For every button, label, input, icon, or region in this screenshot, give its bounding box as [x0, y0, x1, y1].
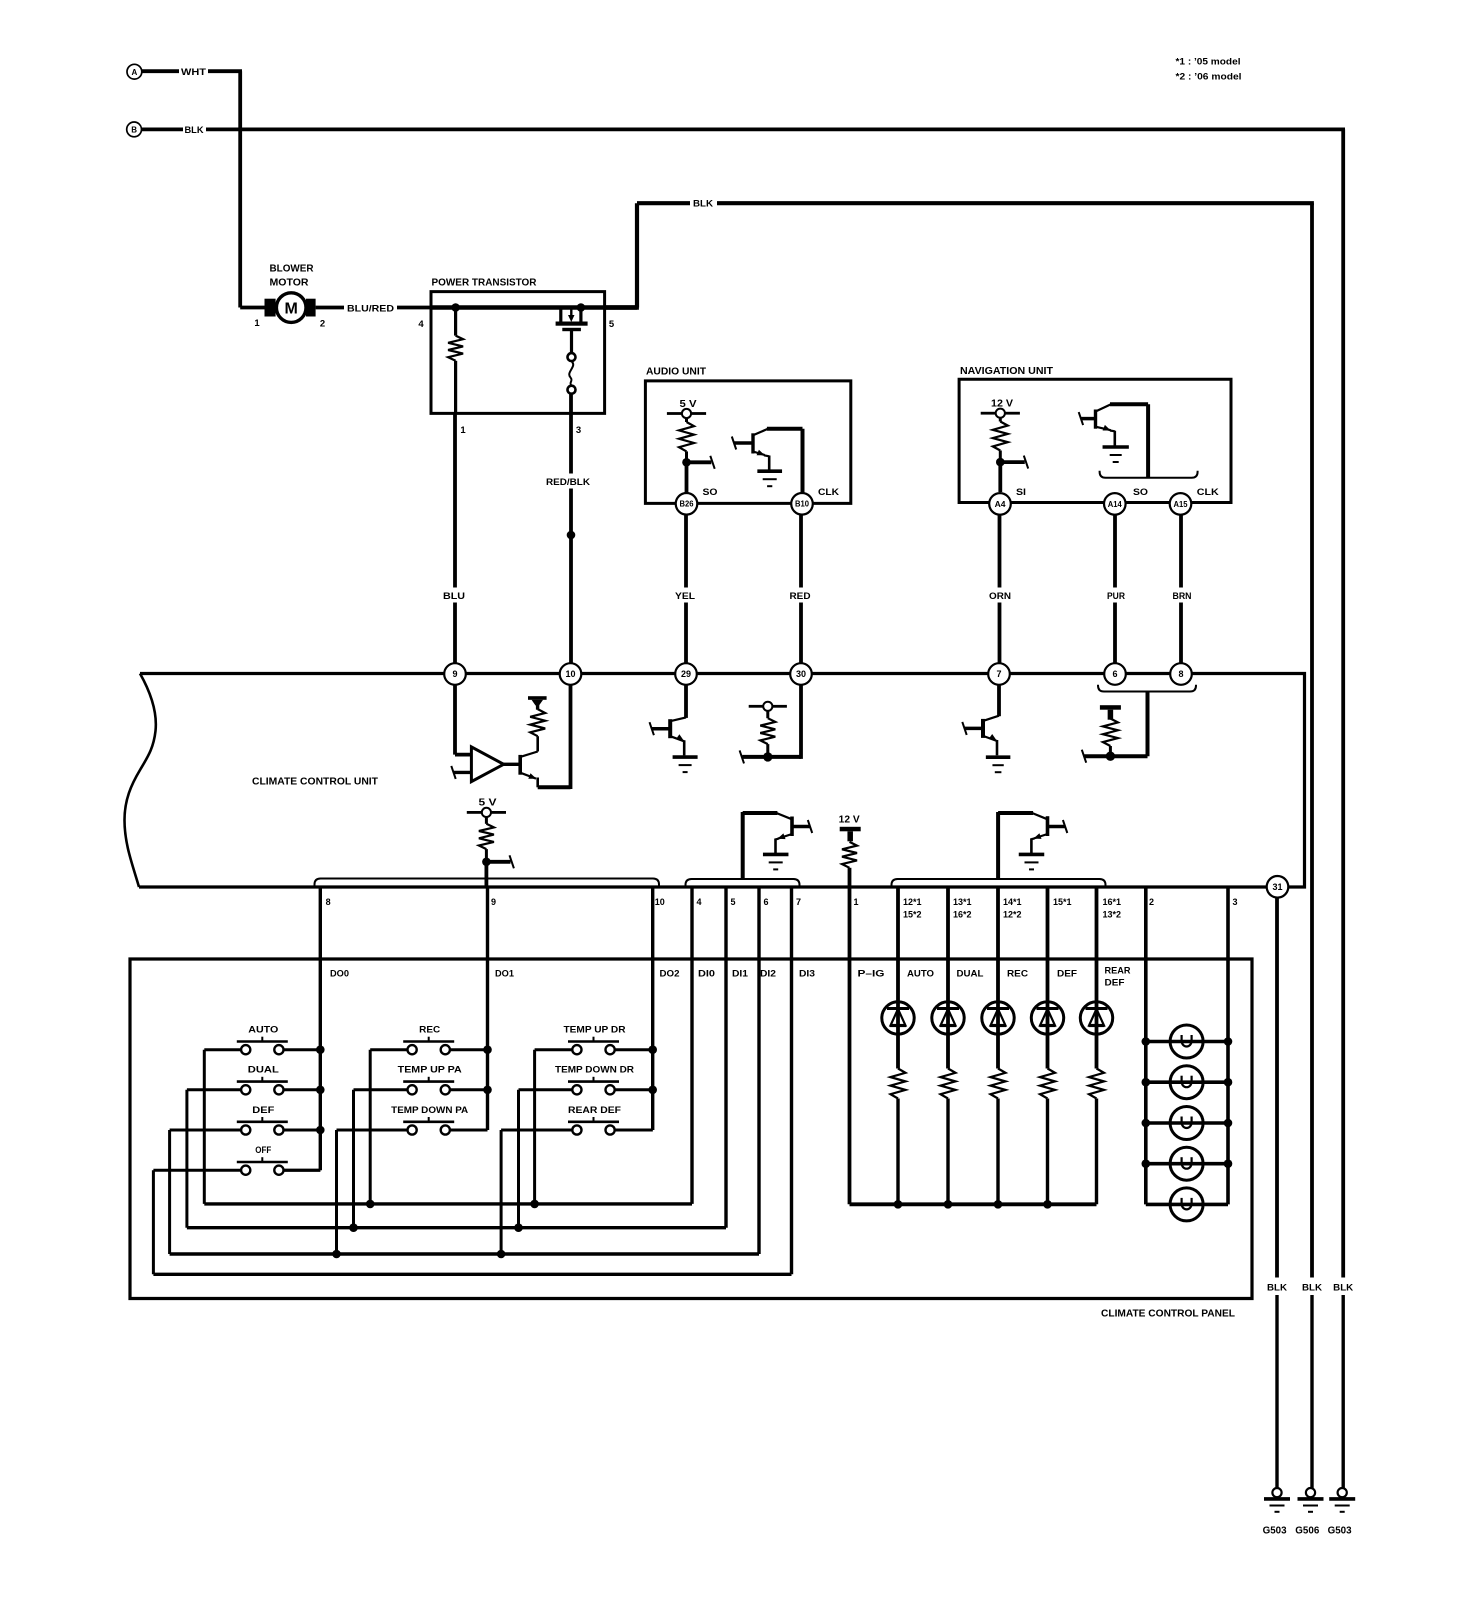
ground G503	[1264, 1488, 1290, 1512]
panel label DI3	[799, 969, 815, 980]
label RED (audio)	[786, 588, 815, 603]
svg-text:*2 : ’06 model: *2 : ’06 model	[1176, 72, 1242, 83]
svg-text:DO1: DO1	[495, 969, 515, 980]
svg-text:BLU/RED: BLU/RED	[347, 303, 394, 314]
svg-text:G503: G503	[1263, 1526, 1287, 1537]
svg-text:A4: A4	[995, 499, 1006, 509]
pull-up resistor (pins 6/8)	[1100, 705, 1121, 761]
wire to A4	[998, 462, 1002, 492]
label SO (nav)	[1133, 487, 1148, 498]
svg-text:10: 10	[655, 897, 665, 907]
wire pin 31 to ground	[1275, 898, 1279, 1286]
transistor T2 (LED group)	[998, 812, 1067, 880]
svg-text:TEMP DOWN DR: TEMP DOWN DR	[555, 1065, 634, 1076]
svg-text:CLK: CLK	[1197, 487, 1219, 498]
wire drain bus inside power transistor	[431, 305, 637, 310]
label BRN	[1167, 588, 1196, 603]
label ORN	[985, 588, 1015, 603]
ground (navigation unit)	[1103, 447, 1129, 462]
svg-text:ORN: ORN	[989, 591, 1011, 602]
terminal B10	[791, 493, 813, 515]
pin 30 circle	[790, 663, 812, 685]
junction drain node	[577, 303, 586, 312]
terminal A4	[989, 493, 1011, 515]
svg-text:REAR DEF: REAR DEF	[568, 1105, 621, 1116]
5V supply (climate unit)	[467, 797, 506, 817]
label CLK (audio)	[818, 487, 839, 498]
switch TEMP DOWN DR	[519, 1065, 653, 1228]
pin label 15*1	[1053, 897, 1072, 907]
svg-text:16*1: 16*1	[1103, 897, 1122, 907]
panel label DO1	[495, 969, 515, 980]
LED DEF	[1031, 887, 1063, 1069]
svg-text:6: 6	[764, 897, 769, 907]
svg-text:NAVIGATION UNIT: NAVIGATION UNIT	[960, 365, 1054, 377]
junction DO column	[316, 1045, 325, 1054]
resistor (LED REAR DEF)	[1089, 1069, 1104, 1205]
junction LED bus DUAL	[944, 1200, 953, 1209]
connector B	[127, 122, 142, 137]
svg-text:REC: REC	[419, 1025, 440, 1036]
panel label AUTO	[907, 969, 934, 980]
switch REAR DEF	[501, 1105, 653, 1254]
transistor (pin 7)	[962, 685, 999, 756]
pull-up (pin 30)	[749, 702, 787, 757]
junction LED bus DEF	[1043, 1200, 1052, 1209]
resistor (5V pull-up)	[479, 817, 494, 862]
svg-text:6: 6	[1112, 669, 1117, 679]
label BLU	[441, 588, 468, 603]
wire to B10	[801, 429, 805, 493]
wire bracket to resistor node	[1082, 692, 1148, 763]
svg-text:BRN: BRN	[1173, 591, 1192, 602]
resistor (power transistor)	[448, 308, 463, 414]
svg-text:DI1: DI1	[732, 969, 749, 980]
svg-text:BLK: BLK	[185, 125, 204, 136]
wire BLK top (power transistor to right)	[605, 203, 1314, 1286]
svg-text:31: 31	[1272, 882, 1282, 892]
svg-text:TEMP UP PA: TEMP UP PA	[398, 1065, 462, 1076]
op-amp U1	[451, 685, 518, 782]
svg-text:B: B	[131, 126, 137, 135]
LED AUTO	[882, 887, 914, 1069]
svg-text:1: 1	[254, 318, 260, 329]
resistor (12V P-IG)	[842, 842, 857, 887]
label AUDIO UNIT	[646, 366, 707, 378]
label PUR	[1102, 588, 1130, 603]
junction bulb rail right	[1224, 1159, 1233, 1168]
label BLK (connector B)	[183, 122, 206, 137]
label RED/BLK	[542, 474, 594, 489]
panel label DO2	[660, 969, 680, 980]
svg-text:4: 4	[697, 897, 702, 907]
svg-text:1: 1	[460, 425, 466, 436]
svg-text:DUAL: DUAL	[248, 1065, 279, 1076]
wire RED B10 to pin 30	[799, 515, 803, 664]
svg-text:CLIMATE CONTROL UNIT: CLIMATE CONTROL UNIT	[252, 776, 379, 788]
svg-text:B26: B26	[680, 500, 695, 509]
bracket DI pins 4 5 6 7	[686, 879, 800, 887]
junction bulb rail right	[1224, 1037, 1233, 1046]
svg-text:12*2: 12*2	[1003, 910, 1022, 920]
5V supply (audio unit)	[667, 399, 706, 418]
svg-text:4: 4	[418, 319, 424, 330]
pin 7 circle	[988, 663, 1010, 685]
terminal B26	[676, 493, 698, 515]
wire BLK from connector B	[142, 129, 1346, 1286]
blower motor	[240, 293, 315, 323]
svg-text:REAR: REAR	[1105, 966, 1131, 977]
svg-text:2: 2	[1149, 897, 1154, 907]
label WHT	[179, 64, 208, 79]
label G506	[1295, 1526, 1319, 1537]
junction DO column	[648, 1045, 657, 1054]
wire DI0 row	[204, 887, 692, 1204]
junction matrix row	[497, 1250, 506, 1259]
pin label 10	[655, 897, 665, 907]
junction DO column	[483, 1045, 492, 1054]
svg-text:5: 5	[609, 319, 615, 330]
ground (T2)	[1019, 854, 1045, 869]
junction matrix row	[366, 1200, 375, 1209]
svg-text:14*1: 14*1	[1003, 897, 1022, 907]
switch OFF	[153, 1145, 320, 1274]
svg-text:DEF: DEF	[1057, 969, 1077, 980]
connector A	[127, 64, 142, 79]
resistor (LED DEF)	[1040, 1069, 1055, 1205]
transistor (pin 29)	[650, 685, 687, 756]
transistor T1 (DI group)	[743, 812, 813, 880]
svg-text:BLK: BLK	[1302, 1282, 1322, 1293]
label SI	[1016, 487, 1026, 498]
pin 31 circle	[1267, 876, 1289, 898]
svg-text:9: 9	[491, 897, 496, 907]
wire to G503 (right)	[1341, 1295, 1344, 1488]
panel label DO0	[330, 969, 349, 980]
label SO (audio)	[703, 487, 718, 498]
svg-text:CLK: CLK	[818, 487, 839, 498]
resistor (collector pull-up)	[530, 709, 545, 751]
junction bulb rail right	[1224, 1078, 1233, 1087]
svg-text:G503: G503	[1328, 1526, 1352, 1537]
svg-text:13*2: 13*2	[1103, 910, 1122, 920]
note *2 '06 model	[1176, 72, 1242, 83]
inline connector pair on source lead	[568, 353, 576, 394]
power transistor pin 1	[460, 425, 466, 436]
svg-text:DEF: DEF	[1105, 978, 1125, 989]
svg-text:BLU: BLU	[443, 591, 465, 602]
svg-text:WHT: WHT	[181, 67, 206, 78]
wire YEL B26 to pin 29	[684, 515, 688, 664]
svg-text:CLIMATE CONTROL PANEL: CLIMATE CONTROL PANEL	[1101, 1308, 1236, 1320]
wire RED/BLK pin3 down to pin 10	[569, 394, 573, 663]
wire DO0	[284, 887, 321, 1170]
svg-text:OFF: OFF	[255, 1145, 271, 1156]
svg-text:AUTO: AUTO	[907, 969, 934, 980]
label NAVIGATION UNIT	[960, 365, 1054, 377]
12V supply (navigation unit)	[981, 399, 1020, 418]
svg-text:15*2: 15*2	[903, 910, 922, 920]
wire P-IG	[850, 887, 1097, 1204]
svg-text:2: 2	[320, 319, 325, 330]
pin label 9	[491, 897, 496, 907]
wire transistor to SO/CLK bracket	[1146, 404, 1150, 478]
pin label 4	[697, 897, 702, 907]
wire DI1 row	[187, 887, 726, 1228]
illumination bulb 5	[1146, 1188, 1228, 1221]
illumination bulb 2	[1146, 1066, 1228, 1099]
wire DI2 row	[170, 887, 759, 1254]
LED REAR DEF	[1080, 887, 1112, 1069]
panel label DI2	[760, 969, 776, 980]
terminal A15	[1170, 493, 1192, 515]
label POWER TRANSISTOR	[432, 277, 537, 289]
switch REC	[370, 1025, 487, 1204]
svg-text:A: A	[132, 68, 138, 77]
svg-text:PUR: PUR	[1107, 591, 1125, 602]
svg-text:3: 3	[576, 425, 581, 436]
terminal A14	[1104, 493, 1126, 515]
illumination bulb 3	[1146, 1107, 1228, 1140]
resistor (LED AUTO)	[891, 1069, 906, 1205]
junction LED bus AUTO	[894, 1200, 903, 1209]
label CLIMATE CONTROL PANEL	[1101, 1308, 1236, 1320]
junction DO column	[316, 1126, 325, 1135]
ground G503	[1329, 1488, 1355, 1512]
svg-text:P–IG: P–IG	[858, 969, 885, 980]
blower motor pin 2	[320, 319, 325, 330]
label CLIMATE CONTROL UNIT	[252, 776, 379, 788]
resistor (LED REC)	[991, 1069, 1006, 1205]
panel label REAR DEF	[1105, 966, 1131, 989]
pin label 6	[764, 897, 769, 907]
MOSFET (power transistor)	[556, 308, 588, 353]
svg-text:DO2: DO2	[660, 969, 680, 980]
audio unit box	[645, 381, 850, 504]
climate control unit outline	[125, 674, 1305, 888]
svg-text:10: 10	[565, 669, 575, 679]
label BLU/RED	[344, 300, 397, 315]
wire DI3 row	[153, 887, 791, 1274]
junction on RED/BLK wire	[567, 531, 576, 540]
svg-text:7: 7	[996, 669, 1001, 679]
power transistor pin 3	[576, 425, 581, 436]
wire pin 30 down	[799, 685, 803, 759]
pin label 13*1	[953, 897, 972, 920]
pin label 3	[1233, 897, 1238, 907]
internal supply T-bar	[528, 696, 547, 710]
svg-text:B10: B10	[795, 500, 810, 509]
bracket DO pins 8 9 10	[315, 879, 660, 888]
svg-text:MOTOR: MOTOR	[270, 278, 310, 289]
wire DO1	[450, 887, 488, 1130]
blower motor pin 1	[254, 318, 260, 329]
pin label 14*1	[1003, 897, 1022, 920]
wire BLU/RED motor to power transistor	[316, 306, 431, 310]
pin label 5	[731, 897, 736, 907]
panel label DUAL	[957, 969, 984, 980]
ground (T1)	[763, 854, 789, 869]
svg-text:BLK: BLK	[1333, 1282, 1353, 1293]
pin 29 circle	[675, 663, 697, 685]
junction bulb rail left	[1142, 1037, 1151, 1046]
illumination bulb 1	[1146, 1025, 1228, 1058]
junction matrix row	[530, 1200, 539, 1209]
pin 10 circle	[560, 663, 582, 685]
label BLOWER MOTOR	[270, 264, 315, 289]
pin label 1	[854, 897, 859, 907]
label YEL	[671, 588, 700, 603]
wire to G503 (left)	[1275, 1295, 1278, 1488]
svg-text:RED/BLK: RED/BLK	[546, 477, 590, 488]
svg-text:TEMP DOWN PA: TEMP DOWN PA	[391, 1105, 468, 1116]
label BLK (ground wire)	[1332, 1278, 1355, 1295]
svg-text:7: 7	[796, 897, 801, 907]
climate control panel box	[130, 959, 1252, 1299]
svg-text:A15: A15	[1174, 500, 1189, 509]
label BLK (top wire)	[690, 196, 717, 211]
svg-text:3: 3	[1233, 897, 1238, 907]
label CLK (nav)	[1197, 487, 1219, 498]
wire WHT from connector A	[142, 71, 242, 307]
svg-text:8: 8	[1178, 669, 1183, 679]
svg-text:POWER TRANSISTOR: POWER TRANSISTOR	[432, 277, 537, 289]
svg-text:AUTO: AUTO	[248, 1025, 278, 1036]
junction matrix row	[332, 1250, 341, 1259]
label BLK (ground wire)	[1266, 1278, 1289, 1295]
junction matrix row	[349, 1223, 358, 1232]
pin 8 circle	[1170, 663, 1192, 685]
wire DO2	[615, 887, 653, 1130]
svg-text:AUDIO UNIT: AUDIO UNIT	[646, 366, 707, 378]
svg-text:12 V: 12 V	[839, 814, 860, 825]
ground G506	[1298, 1488, 1324, 1512]
node and stub (pin 30)	[740, 750, 801, 763]
resistor (navigation unit)	[993, 418, 1008, 462]
power transistor pin 4	[418, 319, 424, 330]
junction DO column	[316, 1086, 325, 1095]
svg-text:15*1: 15*1	[1053, 897, 1072, 907]
node SO (audio unit)	[682, 456, 715, 469]
pin 9 circle	[444, 663, 466, 685]
svg-text:DI2: DI2	[760, 969, 776, 980]
wire BRN A15 to pin 8	[1179, 515, 1183, 664]
wire pin 2 rail	[1144, 887, 1148, 1204]
ground (audio unit)	[757, 471, 782, 486]
wire to B26	[685, 462, 689, 493]
wire pin 3 rail	[1226, 887, 1230, 1204]
svg-text:5: 5	[731, 897, 736, 907]
svg-text:DO0: DO0	[330, 969, 349, 980]
pin 6 circle	[1104, 663, 1126, 685]
LED DUAL	[932, 887, 964, 1069]
power transistor pin 5	[609, 319, 615, 330]
svg-text:SO: SO	[703, 487, 718, 498]
svg-text:16*2: 16*2	[953, 910, 972, 920]
wire ORN A4 to pin 7	[998, 515, 1002, 664]
transistor (navigation unit)	[1079, 404, 1148, 447]
junction bulb rail right	[1224, 1119, 1233, 1128]
svg-text:G506: G506	[1295, 1526, 1319, 1537]
svg-text:9: 9	[452, 669, 457, 679]
pin label 2	[1149, 897, 1154, 907]
switch TEMP DOWN PA	[337, 1105, 488, 1254]
svg-text:DUAL: DUAL	[957, 969, 984, 980]
12V supply (climate unit)	[839, 814, 861, 841]
svg-text:30: 30	[796, 669, 806, 679]
svg-text:BLOWER: BLOWER	[270, 264, 315, 275]
switch DUAL	[187, 1065, 320, 1228]
illumination bulb 4	[1146, 1147, 1228, 1180]
wire BLU pin1 down to pin 9	[453, 413, 457, 663]
power transistor box	[431, 292, 605, 414]
panel label DEF	[1057, 969, 1077, 980]
svg-text:DEF: DEF	[252, 1105, 274, 1116]
ground (pin 29)	[673, 757, 698, 772]
svg-text:M: M	[285, 301, 298, 318]
node DO1 (5V)	[482, 855, 514, 868]
svg-text:RED: RED	[790, 591, 811, 602]
junction bulb rail left	[1142, 1119, 1151, 1128]
panel label DI1	[732, 969, 749, 980]
svg-text:TEMP UP DR: TEMP UP DR	[564, 1025, 626, 1036]
svg-text:A14: A14	[1108, 500, 1123, 509]
svg-text:12*1: 12*1	[903, 897, 922, 907]
switch TEMP UP DR	[535, 1025, 653, 1204]
junction pin4 node	[451, 303, 460, 312]
svg-text:DI3: DI3	[799, 969, 815, 980]
wire to G506 (middle)	[1310, 1295, 1313, 1488]
svg-text:29: 29	[681, 669, 691, 679]
junction LED bus REC	[994, 1200, 1003, 1209]
resistor (audio unit)	[679, 418, 694, 462]
switch AUTO	[204, 1025, 320, 1204]
pin label 16*1	[1103, 897, 1122, 920]
bracket grouping A14 A15	[1100, 471, 1198, 478]
pin label 7	[796, 897, 801, 907]
wire emitter to pin 10	[538, 685, 571, 789]
svg-text:8: 8	[326, 897, 331, 907]
panel label DI0	[698, 969, 715, 980]
svg-text:*1 : ’05 model: *1 : ’05 model	[1176, 57, 1241, 68]
pin label 8	[326, 897, 331, 907]
svg-text:YEL: YEL	[675, 591, 695, 602]
svg-text:DI0: DI0	[698, 969, 715, 980]
wire 5V node to bottom pin 9	[484, 862, 488, 887]
junction bulb rail left	[1142, 1078, 1151, 1087]
node SI (navigation unit)	[996, 456, 1028, 469]
panel label REC	[1007, 969, 1028, 980]
label G503	[1328, 1526, 1352, 1537]
svg-text:1: 1	[854, 897, 859, 907]
LED REC	[982, 887, 1014, 1069]
svg-text:REC: REC	[1007, 969, 1028, 980]
junction DO column	[483, 1086, 492, 1095]
transistor (pins 9/10 buffer)	[520, 752, 538, 788]
junction DO column	[648, 1086, 657, 1095]
transistor (audio unit)	[732, 429, 803, 471]
resistor (LED DUAL)	[941, 1069, 956, 1205]
svg-text:12 V: 12 V	[991, 399, 1013, 410]
switch TEMP UP PA	[354, 1065, 488, 1228]
svg-text:5 V: 5 V	[479, 797, 497, 808]
ground (pin 7)	[986, 757, 1011, 772]
svg-text:BLK: BLK	[693, 199, 713, 210]
junction bulb rail left	[1142, 1159, 1151, 1168]
label G503	[1263, 1526, 1287, 1537]
svg-text:13*1: 13*1	[953, 897, 972, 907]
pin label 12*1	[903, 897, 922, 920]
